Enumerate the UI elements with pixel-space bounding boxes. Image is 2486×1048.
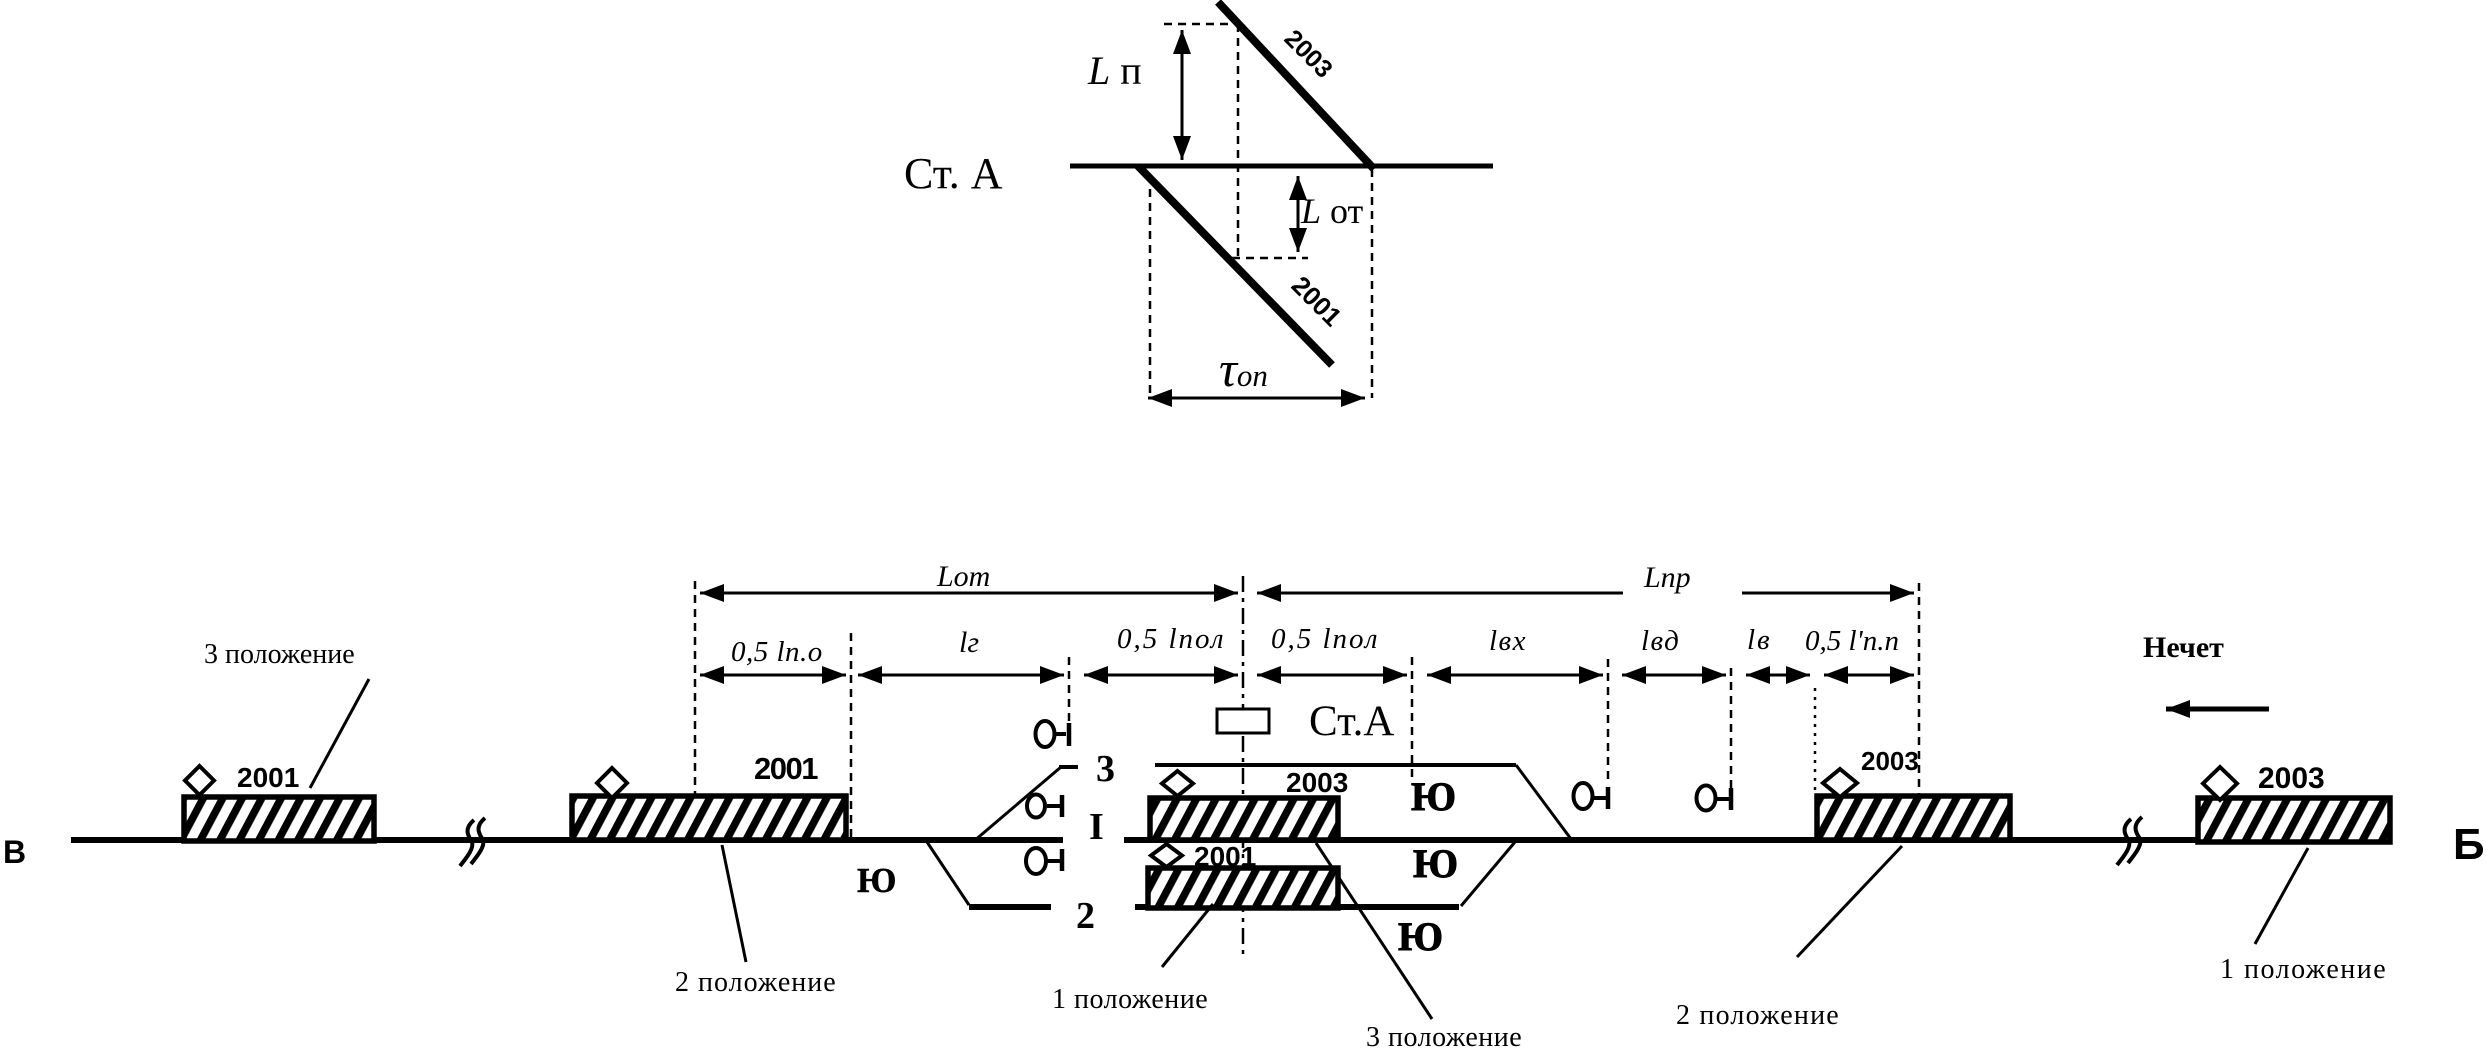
- svg-text:3 положение: 3 положение: [204, 639, 355, 670]
- svg-text:lвх: lвх: [1489, 625, 1527, 657]
- svg-text:1 положение: 1 положение: [1052, 984, 1208, 1015]
- svg-text:2003: 2003: [2258, 762, 2325, 795]
- svg-text:2001: 2001: [1194, 841, 1256, 872]
- svg-text:lг: lг: [959, 626, 979, 659]
- svg-text:Б: Б: [2453, 820, 2485, 869]
- svg-text:Lот: Lот: [936, 560, 990, 593]
- svg-text:0,5 lпол: 0,5 lпол: [1117, 623, 1225, 655]
- svg-text:Ст.А: Ст.А: [1309, 698, 1394, 745]
- svg-text:3 положение: 3 положение: [1366, 1022, 1522, 1048]
- svg-text:Нечет: Нечет: [2143, 631, 2224, 664]
- svg-text:0,5 lпол: 0,5 lпол: [1271, 623, 1379, 655]
- svg-text:Ю: Ю: [1411, 774, 1456, 819]
- svg-text:2003: 2003: [1286, 767, 1348, 798]
- svg-text:2: 2: [1076, 895, 1095, 937]
- svg-text:L от: L от: [1300, 191, 1364, 231]
- svg-text:Ю: Ю: [1398, 914, 1443, 959]
- svg-text:lв: lв: [1747, 624, 1772, 656]
- svg-text:I: I: [1089, 806, 1104, 848]
- svg-text:Ст. А: Ст. А: [904, 149, 1003, 198]
- svg-text:1 положение: 1 положение: [2220, 954, 2387, 985]
- svg-text:lвд: lвд: [1641, 625, 1680, 657]
- svg-text:L п: L п: [1087, 48, 1142, 93]
- svg-text:0,5 l'п.п: 0,5 l'п.п: [1805, 625, 1899, 657]
- svg-text:2003: 2003: [1861, 746, 1919, 776]
- svg-text:0,5 lп.о: 0,5 lп.о: [731, 636, 823, 668]
- svg-text:2001: 2001: [237, 762, 299, 793]
- svg-text:В: В: [3, 834, 26, 870]
- svg-text:3: 3: [1096, 748, 1115, 790]
- svg-text:Lпр: Lпр: [1643, 561, 1691, 594]
- svg-text:2 положение: 2 положение: [675, 967, 837, 998]
- svg-text:2 положение: 2 положение: [1676, 1000, 1840, 1031]
- svg-text:2001: 2001: [754, 751, 818, 786]
- svg-text:Ю: Ю: [1413, 841, 1458, 886]
- svg-text:τоп: τоп: [1219, 341, 1268, 397]
- svg-text:Ю: Ю: [857, 861, 896, 900]
